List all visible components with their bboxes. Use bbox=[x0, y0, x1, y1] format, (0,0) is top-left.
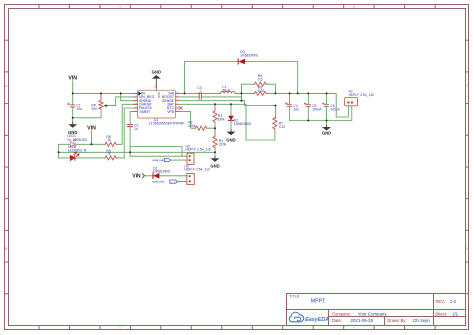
svg-text:1u: 1u bbox=[134, 127, 138, 131]
resistor R9 bbox=[104, 149, 118, 160]
LED LED1 bbox=[67, 134, 88, 147]
svg-text:HDR-F 2.54_1x2: HDR-F 2.54_1x2 bbox=[186, 148, 212, 152]
wire rail to SENSE stub bbox=[241, 93, 243, 100]
ground (C1) bbox=[68, 122, 77, 135]
junction VIN rail / flag drop bbox=[72, 92, 74, 94]
wire SENSE bbox=[179, 101, 275, 106]
ground (output caps) bbox=[322, 125, 331, 136]
svg-text:2021-09-29: 2021-09-29 bbox=[351, 318, 374, 323]
junction R7 top / SENSE bbox=[274, 105, 276, 107]
wire LED left vertical bbox=[58, 144, 60, 158]
svg-text:100uF: 100uF bbox=[312, 107, 322, 111]
capacitor C1 bbox=[68, 93, 83, 117]
diode D2 bbox=[228, 104, 252, 131]
capacitor C6 bbox=[322, 93, 340, 120]
junction rail / R5-R6 left bbox=[241, 92, 243, 94]
svg-text:10K: 10K bbox=[91, 107, 98, 111]
junction LED row mid bbox=[58, 151, 60, 153]
junction BAT / R3 top bbox=[214, 103, 216, 105]
svg-text:0.22: 0.22 bbox=[279, 125, 286, 129]
net label "solar pad" flag bbox=[152, 158, 184, 162]
junction rail / R5-R6 right bbox=[274, 92, 276, 94]
resistor R4 bbox=[213, 128, 227, 149]
wire BAT bbox=[179, 104, 275, 140]
svg-text:solar pad: solar pad bbox=[152, 158, 164, 162]
resistor R6 (in line) bbox=[254, 85, 268, 95]
wire output rail bbox=[268, 92, 337, 94]
svg-text:solar plus: solar plus bbox=[152, 180, 165, 184]
junction SW / D3 branch bbox=[184, 92, 186, 94]
wire SHDN# from VIN rail bbox=[121, 93, 138, 100]
junction RP wiper bbox=[105, 105, 107, 107]
junction cap rail / C5 bottom bbox=[307, 120, 309, 122]
svg-text:Oh Sejin: Oh Sejin bbox=[413, 318, 430, 323]
svg-text:HDR-F 2.54_1x2: HDR-F 2.54_1x2 bbox=[349, 93, 375, 97]
svg-text:330k: 330k bbox=[217, 118, 225, 122]
junction SENSE / rail stub bbox=[241, 100, 243, 102]
svg-text:1N5819WS: 1N5819WS bbox=[153, 170, 171, 174]
junction VIN rail / SHDN tap bbox=[120, 92, 122, 94]
junction VIN rail / RP top bbox=[100, 92, 102, 94]
connector H3 bbox=[185, 144, 211, 164]
wire GND drop from cap rail bbox=[326, 121, 328, 128]
wire cap bottom rail bbox=[290, 109, 352, 121]
junction rail / C5 top bbox=[307, 92, 309, 94]
resistor R3 bbox=[213, 104, 225, 128]
svg-text:0.5: 0.5 bbox=[258, 77, 263, 81]
wire row B (GND return) bbox=[59, 151, 131, 153]
wire CHRG# to LED row A bbox=[122, 104, 137, 144]
wire FAULT# to LED row C bbox=[124, 108, 137, 158]
wire SW to L1 bbox=[179, 92, 220, 94]
TITLE BLOCK bbox=[287, 294, 466, 326]
svg-text:MPPT: MPPT bbox=[311, 298, 326, 304]
svg-text:Your Company: Your Company bbox=[358, 311, 388, 316]
ground (D2) bbox=[226, 130, 235, 143]
svg-text:10u: 10u bbox=[293, 107, 299, 111]
svg-text:1: 1 bbox=[119, 5, 121, 9]
diode D3 bbox=[238, 50, 258, 64]
svg-text:220k: 220k bbox=[219, 143, 227, 147]
svg-text:1/1: 1/1 bbox=[452, 311, 459, 316]
svg-text:Drawn By:: Drawn By: bbox=[387, 318, 406, 323]
svg-text:LT3652IMSE#TRPBF: LT3652IMSE#TRPBF bbox=[149, 122, 185, 126]
capacitor C2 bbox=[127, 112, 138, 157]
wire H1 pin1 to rail bbox=[336, 93, 348, 117]
ground (above U1) bbox=[152, 70, 161, 87]
wire to H3 pin1 bbox=[130, 155, 184, 157]
wire TIMER net to H3 pin1 (upper loop) bbox=[130, 147, 182, 157]
junction row A / VIN drop bbox=[91, 143, 93, 145]
wire D3 top loop bbox=[185, 62, 238, 94]
svg-text:68uH: 68uH bbox=[222, 88, 231, 92]
junction rail / C4 top bbox=[289, 92, 291, 94]
net flag VIN (solar input) bbox=[132, 174, 154, 180]
capacitor C3 bbox=[179, 86, 241, 99]
potentiometer RP bbox=[91, 93, 107, 111]
svg-text:EasyEDA: EasyEDA bbox=[305, 317, 329, 323]
resistor R5 (parallel top) bbox=[242, 74, 276, 93]
svg-text:2: 2 bbox=[353, 5, 355, 9]
svg-text:VFB: VFB bbox=[167, 110, 174, 114]
no-connect X at NTC pin bbox=[180, 107, 183, 110]
wire VIN rail top-left bbox=[73, 92, 138, 94]
junction rail / C6 top bbox=[326, 92, 328, 94]
resistor R7 bbox=[273, 106, 286, 131]
svg-text:LED0603_R: LED0603_R bbox=[68, 148, 87, 152]
svg-text:XL-1005USC: XL-1005USC bbox=[67, 138, 88, 142]
svg-text:GND: GND bbox=[210, 163, 219, 168]
svg-text:100uF: 100uF bbox=[330, 107, 340, 111]
diode D1 bbox=[153, 167, 185, 179]
junction R4 bottom / GND run bbox=[214, 151, 216, 153]
svg-text:Sheet:: Sheet: bbox=[435, 311, 447, 316]
EasyEDA logo bbox=[289, 312, 329, 323]
resistor R8 bbox=[104, 135, 118, 146]
svg-text:1.0: 1.0 bbox=[450, 299, 457, 304]
junction BAT / D2 top bbox=[230, 103, 232, 105]
svg-text:10u: 10u bbox=[76, 107, 82, 111]
svg-text:Company:: Company: bbox=[332, 311, 351, 316]
ground (R4 / solar return) bbox=[210, 156, 219, 168]
wire LED row A bbox=[59, 143, 104, 145]
wire GND run above H3 to R4 bbox=[130, 151, 215, 153]
svg-text:GND: GND bbox=[322, 131, 331, 136]
wire RP wiper to VIN_REG bbox=[108, 97, 138, 106]
svg-text:2: 2 bbox=[353, 327, 355, 331]
svg-text:200k: 200k bbox=[188, 124, 196, 128]
op-amp U1 LT3652 charger IC bbox=[134, 87, 185, 126]
capacitor C4 bbox=[285, 93, 299, 120]
svg-text:GND: GND bbox=[157, 92, 161, 98]
svg-text:1: 1 bbox=[119, 327, 121, 331]
wire LED row C bbox=[59, 157, 104, 159]
junction rail / D3 return bbox=[297, 92, 299, 94]
net flag VIN (LED feed) bbox=[87, 126, 96, 145]
connector H1 bbox=[345, 90, 375, 109]
svg-text:Date:: Date: bbox=[332, 318, 342, 323]
junction cap rail / C6 bottom-GND bbox=[326, 120, 328, 122]
inductor L1 bbox=[220, 85, 235, 93]
svg-text:TITLE:: TITLE: bbox=[289, 294, 300, 298]
svg-text:1k: 1k bbox=[107, 152, 111, 156]
wire C1/RP bottom to GND bbox=[73, 109, 101, 124]
svg-text:GND: GND bbox=[152, 70, 161, 75]
connector H2 bbox=[184, 165, 210, 185]
capacitor C5 bbox=[304, 93, 322, 120]
svg-text:VIN: VIN bbox=[132, 174, 141, 180]
svg-text:REV:: REV: bbox=[436, 299, 446, 304]
svg-text:TIMER: TIMER bbox=[139, 110, 150, 114]
net label "solar plus" flag bbox=[152, 180, 184, 184]
net flag VIN (top-left) bbox=[68, 76, 77, 94]
junction C1 bottom / GND run bbox=[72, 117, 74, 119]
svg-text:0.22: 0.22 bbox=[258, 89, 265, 93]
svg-text:1k: 1k bbox=[107, 138, 111, 142]
resistor R2 bbox=[179, 112, 215, 131]
junction C2 bottom / GND run bbox=[129, 151, 131, 153]
svg-text:1N5819WS: 1N5819WS bbox=[234, 122, 252, 126]
LED LED2 bbox=[68, 145, 87, 161]
svg-text:1N5819WS: 1N5819WS bbox=[240, 54, 258, 58]
wire R4 to GND bbox=[214, 149, 216, 159]
junction R3-R4 / R2 bbox=[214, 127, 216, 129]
wire L1 to R6 node bbox=[235, 92, 253, 94]
svg-text:GND: GND bbox=[226, 138, 235, 143]
svg-text:HDR-F 2.54_1x2: HDR-F 2.54_1x2 bbox=[184, 168, 210, 172]
